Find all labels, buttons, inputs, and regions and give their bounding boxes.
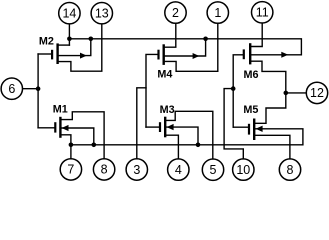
junction dot pin7/bus	[69, 143, 74, 148]
transistor M3	[160, 117, 165, 138]
junction dot M3 bulk/bus	[196, 143, 201, 148]
svg-text:14: 14	[62, 7, 76, 21]
wire M1 drain to pin8	[60, 112, 104, 159]
wire pin12 lead	[286, 92, 307, 94]
node 13	[91, 3, 112, 24]
wire M3 source to pin4	[165, 135, 178, 159]
junction dot M4 bulk/bus	[203, 37, 208, 42]
svg-text:5: 5	[210, 163, 217, 177]
svg-text:M5: M5	[243, 104, 258, 116]
node 14	[59, 3, 80, 24]
svg-text:3: 3	[133, 163, 140, 177]
wire pin3 lead with jog	[137, 88, 146, 159]
wire pin1 lead to M4 drain	[164, 23, 218, 71]
wire M2 bulk to bus	[58, 39, 91, 56]
svg-text:12: 12	[310, 86, 324, 100]
wire pin14 lead	[68, 24, 70, 45]
wire M1 bulk to bus	[60, 128, 93, 145]
svg-text:7: 7	[67, 163, 74, 177]
wire pin11 lead to M6 source	[250, 23, 262, 47]
wire VSS bus	[71, 129, 303, 145]
node 8b	[279, 159, 300, 180]
svg-text:6: 6	[8, 82, 15, 96]
node 5	[202, 159, 223, 180]
transistor M6	[244, 43, 250, 64]
wire gate A vertical	[37, 54, 39, 128]
transistor M5	[249, 119, 254, 141]
node 8	[93, 159, 114, 180]
junction dot pin12	[284, 91, 289, 96]
node 2	[165, 2, 186, 23]
wire M3 gate lead	[146, 126, 159, 128]
node 6	[1, 78, 22, 99]
wire M2 gate lead	[38, 53, 52, 55]
M3 bulk arrow	[167, 124, 174, 130]
node 3	[126, 159, 147, 180]
transistor M1	[55, 117, 60, 138]
node 10	[233, 159, 254, 180]
wire M1 source to bus	[60, 135, 71, 145]
transistor M2	[52, 43, 58, 64]
svg-text:2: 2	[172, 6, 179, 20]
wire M2 source to bus	[58, 44, 70, 46]
node 1	[207, 2, 228, 23]
M6 bulk arrow	[281, 52, 288, 58]
wire M3 drain to pin5	[165, 111, 213, 159]
junction dot gates C / pin10	[231, 86, 236, 91]
svg-text:8: 8	[287, 163, 294, 177]
junction dot pin14/bus	[67, 37, 72, 42]
wire pin2 lead to M4 source	[164, 23, 176, 47]
junction dot node 6	[36, 86, 41, 91]
transistor M4	[159, 44, 164, 65]
svg-text:11: 11	[256, 6, 269, 20]
wire VDD bus	[69, 39, 301, 55]
wire pin7 lead	[70, 145, 72, 159]
wire M6 gate lead	[233, 55, 243, 127]
node 12	[306, 82, 327, 103]
svg-text:13: 13	[95, 7, 109, 21]
M1 bulk arrow	[62, 125, 69, 131]
svg-text:M4: M4	[157, 69, 172, 81]
wire pin6 lead	[22, 88, 38, 90]
node 4	[168, 159, 189, 180]
svg-text:4: 4	[175, 163, 182, 177]
node 7	[60, 159, 81, 180]
junction dot M2 bulk/bus	[89, 37, 94, 42]
node 11	[252, 2, 273, 23]
wire M1 gate lead	[38, 127, 54, 129]
svg-text:M3: M3	[160, 104, 175, 116]
wire M5 source to pin8b	[254, 135, 290, 159]
wire M4 bulk to bus	[164, 39, 206, 56]
wire pin10 lead with jog	[224, 89, 243, 159]
svg-text:M6: M6	[244, 69, 259, 81]
M5 bulk arrow	[256, 126, 263, 132]
svg-text:1: 1	[214, 6, 221, 20]
M4 bulk arrow	[193, 53, 200, 59]
M2 bulk arrow	[80, 53, 87, 59]
svg-text:8: 8	[101, 163, 108, 177]
wire M3 bulk to bus	[167, 127, 198, 145]
wire M6 drain / pin12 vertical / M5 drain	[250, 61, 286, 123]
junction dot M1 bulk/bus	[92, 143, 97, 148]
wire M4 gate lead	[146, 54, 158, 127]
svg-text:M2: M2	[39, 35, 54, 47]
wire pin13 lead to M2 drain	[58, 24, 102, 71]
wire M5 gate lead	[233, 126, 248, 128]
svg-text:10: 10	[236, 163, 250, 177]
svg-text:M1: M1	[53, 104, 68, 116]
